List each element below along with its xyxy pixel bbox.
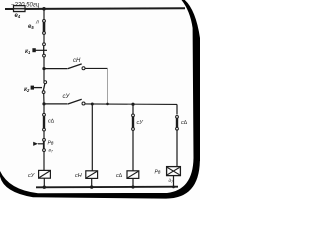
node top junction [42,7,46,11]
wire main vertical upper [43,9,45,20]
node [172,186,175,189]
wire to coil SU [43,152,45,171]
svg-text:с∆: с∆ [116,173,123,179]
branch to coil SN [91,104,93,171]
node [43,186,46,189]
svg-text:Рв: Рв [48,141,54,147]
contact SU (seal rung3) [68,99,82,104]
contact SD on main column [43,104,45,114]
node [90,185,93,188]
fuse e5 element [43,20,46,23]
node junction rung3 [42,102,45,105]
wire rung3 right [85,103,177,106]
node [131,103,134,106]
supply bus ~220V 50Hz [5,7,185,10]
svg-text:Рв: Рв [155,170,161,176]
svg-text:сУ: сУ [63,94,71,100]
wire [43,69,45,81]
svg-text:сУ: сУ [28,173,35,179]
branch contact SD to coil RV [176,104,178,114]
wire [132,178,134,187]
pushbutton k1 (stop, NC) [43,43,46,46]
wire rung2 right [107,69,109,104]
svg-text:сУ: сУ [137,120,144,126]
wire [43,57,45,69]
svg-text:к1: к1 [25,49,31,55]
wire rung2 left [44,68,67,70]
svg-text:сН: сН [75,173,82,179]
coil SU [39,170,51,178]
svg-text:с∆: с∆ [48,119,55,125]
contact RV (time relay) on main column [43,131,45,139]
bottom bus [36,186,178,189]
coil SD [127,171,139,179]
svg-text:л: л [35,20,39,26]
node junction rung2 [42,67,45,70]
frame: rounded photo border [0,0,200,199]
coil SN [86,171,98,179]
svg-text:с∆: с∆ [181,120,188,126]
coil RV (hatched) [167,167,181,176]
wire [43,178,45,187]
pushbutton k2 (start, NO) [44,81,47,84]
svg-text:е5: е5 [28,24,34,30]
branch contact SU to coil SD [132,104,134,114]
svg-text:сН: сН [73,58,81,64]
wire rung3 left [44,103,67,105]
svg-text:к2: к2 [24,87,30,93]
wire [43,34,45,43]
label e4 [15,13,21,19]
label ~220 50Hz [11,3,40,9]
node [106,103,109,106]
wire [173,176,175,187]
svg-text:е4: е4 [15,13,21,19]
contact SN (seal) [68,64,82,69]
node [91,103,94,106]
fuse e4 [14,6,26,12]
wire [91,178,93,187]
